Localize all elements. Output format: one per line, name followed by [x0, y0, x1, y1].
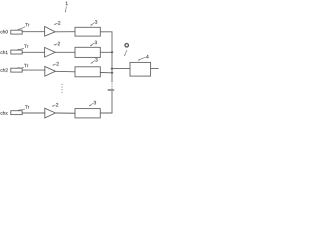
node chx input label	[1, 111, 8, 115]
junction bus to box4	[111, 68, 114, 70]
leader Tr (ch2)	[18, 67, 24, 69]
wire box3 to bus (ch2)	[100, 72, 112, 74]
leader 3 (ch2)	[91, 61, 95, 64]
wire box3 to bus (ch0)	[100, 31, 112, 33]
leader 3 (chx)	[89, 103, 93, 106]
wire amp to box3 (chx)	[55, 112, 75, 114]
junction ch1-bus	[111, 51, 114, 53]
wire chx Tr to amp	[22, 112, 45, 114]
leader 1	[65, 7, 68, 11]
label 3 (chx)	[94, 101, 96, 105]
bus continuation dots	[111, 84, 112, 89]
amplifier 2 (chx)	[45, 108, 56, 118]
transformer Tr (chx)	[11, 111, 22, 115]
label 2 (ch0)	[58, 21, 60, 24]
label Tr (ch2)	[24, 64, 28, 67]
wire box4 output	[151, 68, 159, 70]
wire amp to box3 (ch0)	[55, 31, 75, 33]
wire ch1 Tr to amp	[22, 51, 44, 53]
junction ch2-bus	[111, 72, 114, 74]
node ch0 input label	[1, 30, 8, 34]
wire bus to box4	[112, 68, 130, 70]
box 3 (ch0)	[75, 27, 100, 36]
label 3 (ch1)	[95, 41, 97, 45]
transformer Tr (ch2)	[11, 68, 22, 72]
bus break tick	[108, 89, 113, 91]
wire ch2 Tr to amp	[22, 69, 45, 71]
leader 2 (chx)	[52, 105, 55, 106]
leader 4	[138, 57, 145, 60]
leader Tr (ch1)	[18, 48, 24, 49]
box 3 (ch2)	[75, 67, 100, 77]
leader node marker	[125, 50, 127, 54]
amplifier 2 (ch0)	[45, 27, 56, 37]
node ch2 input label	[1, 68, 8, 72]
label 3 (ch2)	[95, 58, 97, 62]
label Tr (chx)	[25, 105, 29, 108]
leader 3 (ch1)	[90, 43, 94, 46]
leader 2 (ch2)	[53, 64, 56, 65]
label 2 (ch1)	[58, 42, 60, 45]
continuation dots (channels)	[61, 84, 62, 93]
wire amp to box3 (ch2)	[55, 70, 75, 73]
leader Tr (chx)	[18, 109, 25, 110]
label 1	[66, 2, 68, 5]
label 3 (ch0)	[95, 20, 97, 24]
box 3 (ch1)	[75, 47, 100, 57]
wire amp to box3 (ch1)	[55, 51, 75, 53]
node ch1 input label	[1, 51, 8, 55]
label Tr (ch1)	[24, 45, 28, 48]
wire box3 to bus (chx)	[100, 112, 112, 114]
wire ch0 Tr to amp	[22, 31, 44, 33]
label 2 (chx)	[56, 103, 58, 106]
amplifier 2 (ch1)	[45, 47, 56, 57]
label 4	[146, 55, 149, 58]
bus lower segment	[111, 91, 113, 113]
label 2 (ch2)	[56, 62, 58, 65]
leader 2 (ch1)	[54, 44, 57, 45]
transformer Tr (ch0)	[11, 30, 22, 34]
wire box3 to bus (ch1)	[100, 51, 112, 53]
box 4	[130, 62, 151, 76]
label Tr (ch0)	[25, 23, 29, 26]
leader 3 (ch0)	[91, 23, 95, 26]
leader Tr (ch0)	[18, 27, 25, 30]
box 3 (chx)	[75, 109, 100, 118]
transformer Tr (ch1)	[11, 50, 22, 54]
leader 2 (ch0)	[54, 23, 57, 24]
bus upper segment	[111, 32, 113, 82]
node marker circle	[125, 44, 129, 48]
amplifier 2 (ch2)	[45, 67, 56, 77]
